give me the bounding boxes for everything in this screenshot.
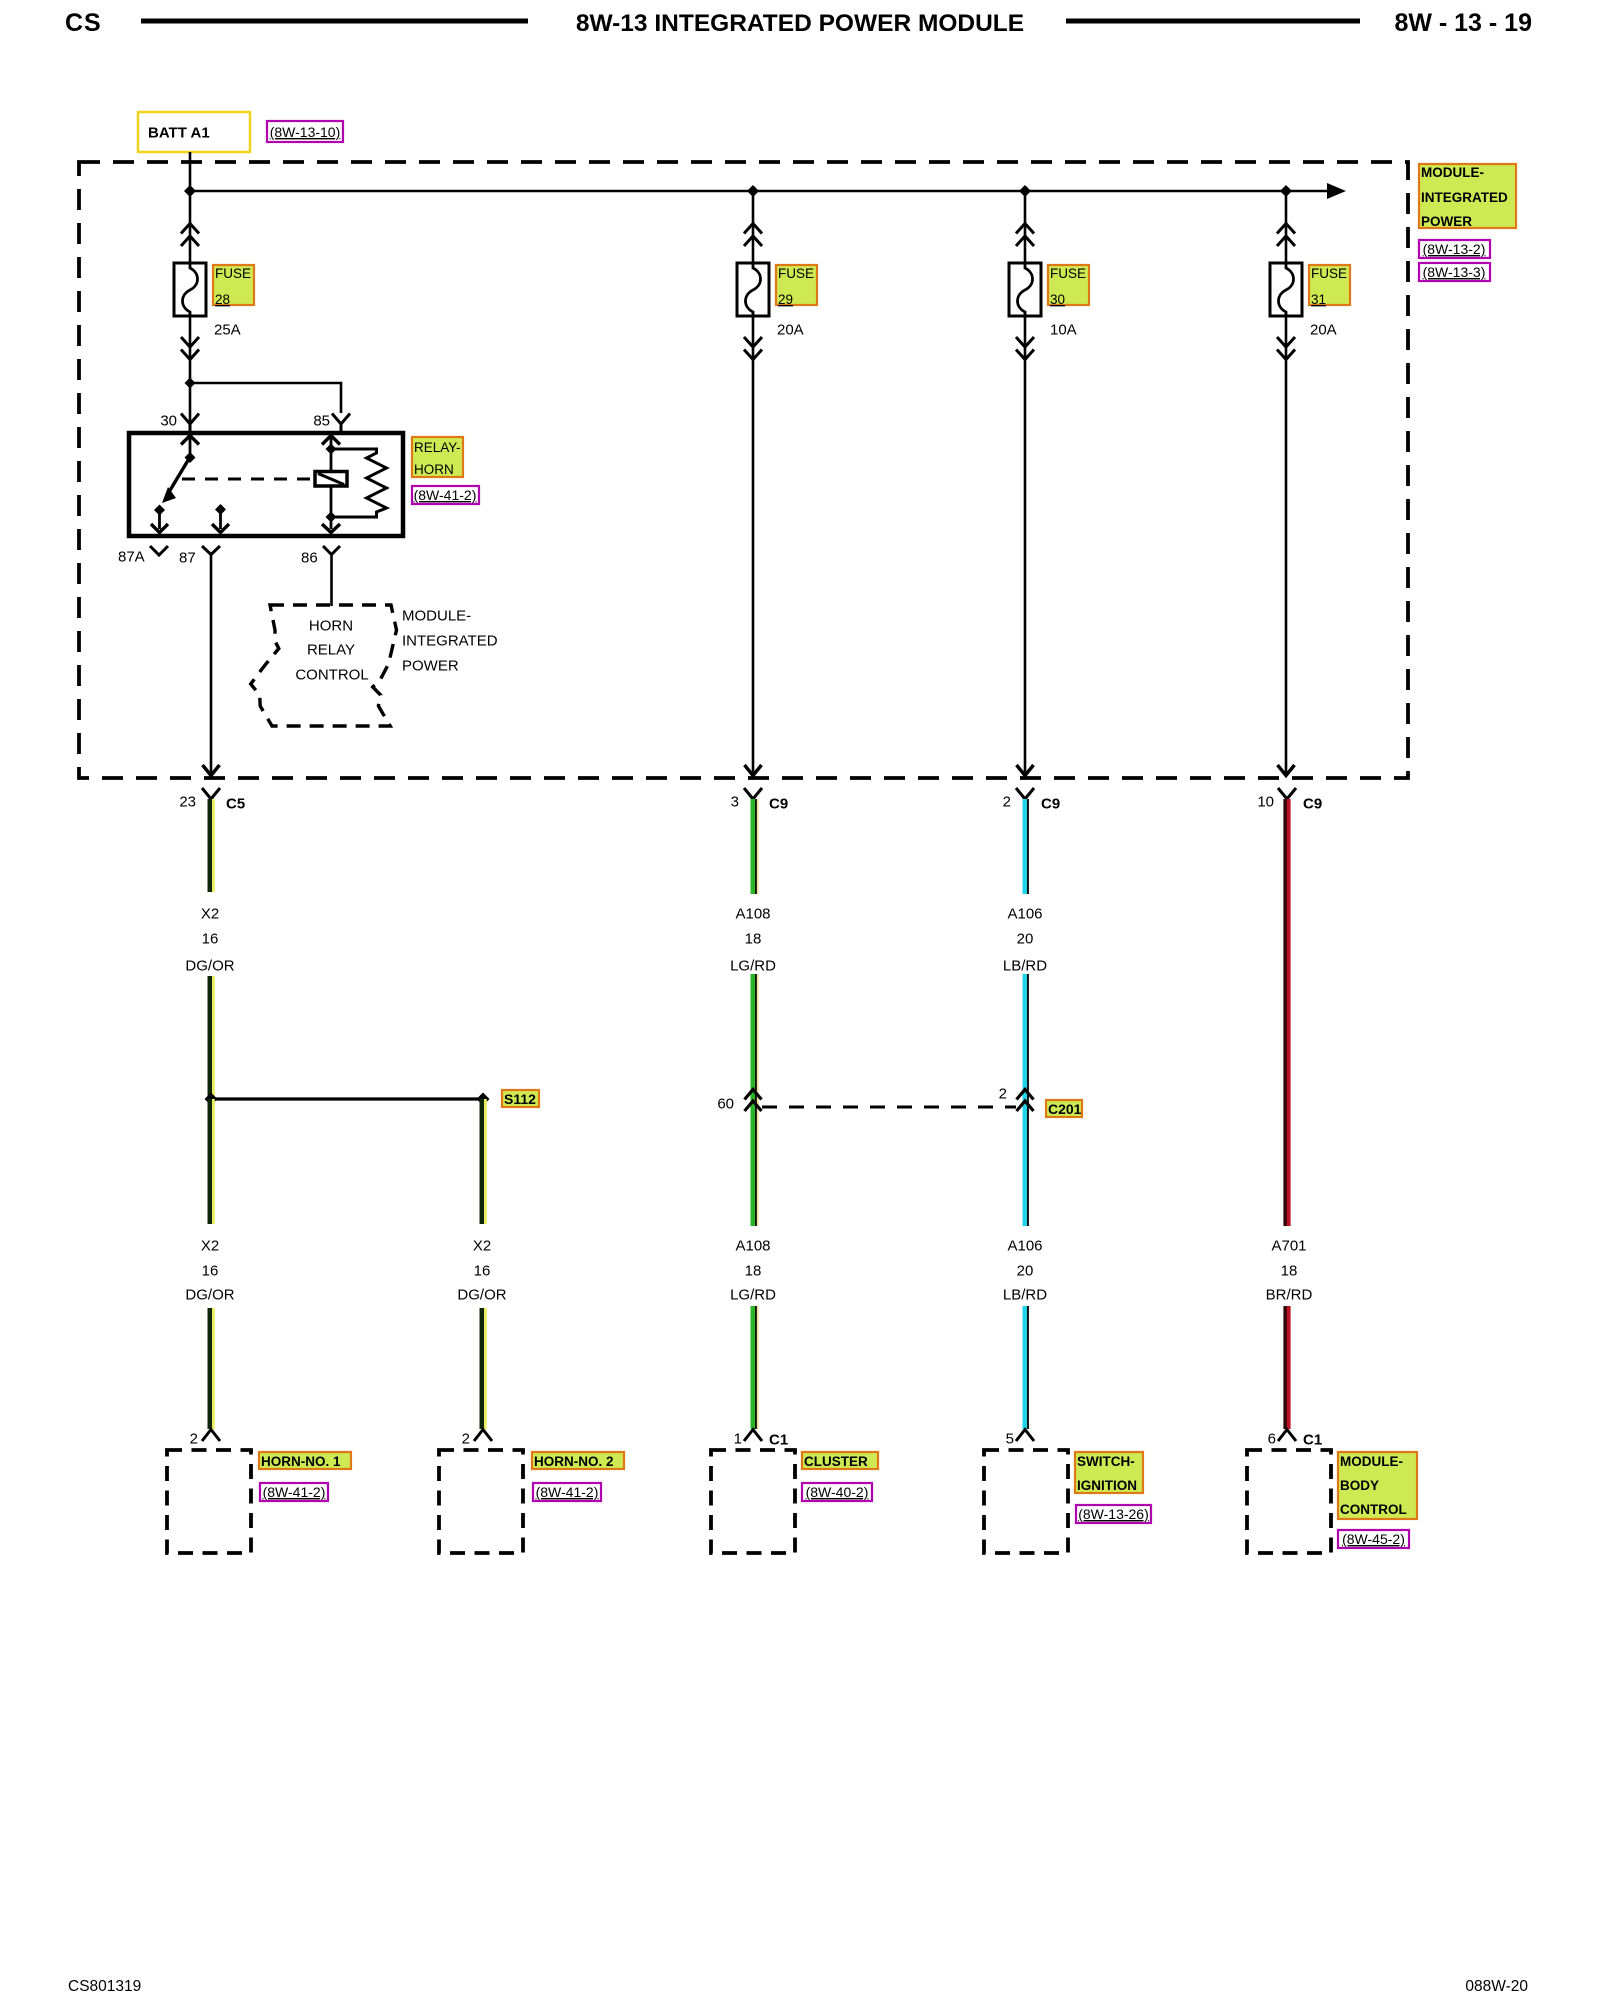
footer drawing number 088W-20 xyxy=(1465,1978,1528,1995)
wire A106 20 LB/RD to ignition switch xyxy=(1025,1306,1028,1429)
fuse F29 column wire (top) xyxy=(752,191,755,263)
svg-text:16: 16 xyxy=(202,931,219,948)
label HORN-NO. 2 xyxy=(532,1452,624,1469)
label CLUSTER xyxy=(802,1452,878,1469)
svg-text:X2: X2 xyxy=(201,906,219,923)
header rule right xyxy=(1066,19,1360,24)
node BATT A1 xyxy=(138,112,250,152)
svg-text:CS801319: CS801319 xyxy=(68,1978,141,1995)
svg-text:INTEGRATED: INTEGRATED xyxy=(402,633,498,650)
connector fork C9 pin 2 (below module) xyxy=(1016,788,1034,799)
svg-text:10A: 10A xyxy=(1050,322,1077,339)
C201 dashed tie line xyxy=(762,1106,1016,1109)
wire X2 16 DG/OR to horn no.1 xyxy=(210,1308,213,1429)
link (8W-13-2) xyxy=(1419,240,1490,258)
svg-text:A106: A106 xyxy=(1007,1238,1042,1255)
wire labels A108 18 LG/RD (lower) xyxy=(730,1238,776,1304)
svg-text:FUSE: FUSE xyxy=(1050,266,1086,281)
svg-text:C1: C1 xyxy=(1303,1432,1322,1449)
fuse F31 body xyxy=(1270,263,1302,316)
in-line connector C201 chevrons (left, pin 60) xyxy=(745,1090,762,1112)
svg-text:DG/OR: DG/OR xyxy=(185,958,234,975)
text HORN RELAY CONTROL xyxy=(295,618,368,684)
label HORN-NO. 1 xyxy=(259,1452,351,1469)
svg-text:60: 60 xyxy=(717,1096,734,1113)
svg-text:IGNITION: IGNITION xyxy=(1077,1478,1137,1493)
connector fork body control module pin 6 (to component) xyxy=(1278,1430,1296,1442)
wire pin 86 to horn relay control xyxy=(330,555,333,607)
pin 30 connector fork xyxy=(181,414,199,434)
pin 23 label xyxy=(179,794,196,811)
svg-text:16: 16 xyxy=(202,1263,219,1280)
wire to pin 30 xyxy=(189,383,192,424)
wire A701 18 BR/RD to body control module xyxy=(1285,1306,1288,1429)
splice S112 node left xyxy=(205,1093,218,1106)
component box SWITCH-IGNITION xyxy=(984,1450,1068,1553)
svg-text:BR/RD: BR/RD xyxy=(1266,1287,1313,1304)
svg-text:2: 2 xyxy=(190,1431,198,1448)
pin 30 label xyxy=(160,413,177,430)
connector chevrons below fuse F30 xyxy=(1016,337,1034,360)
link (8W-13-10) xyxy=(267,121,343,142)
wire labels A106 20 LB/RD (upper) xyxy=(1003,906,1047,975)
connector C5 label xyxy=(226,796,245,813)
svg-text:25A: 25A xyxy=(214,322,241,339)
pin 87A connector chevron xyxy=(150,546,168,555)
connector chevrons below fuse F29 xyxy=(744,337,762,360)
svg-text:C9: C9 xyxy=(1303,796,1322,813)
value 20A for fuse F31 xyxy=(1310,322,1337,339)
connector chevrons above fuse F28 xyxy=(181,224,199,247)
pin 5 label xyxy=(1006,1431,1014,1448)
svg-text:(8W-13-3): (8W-13-3) xyxy=(1423,264,1486,280)
svg-text:INTEGRATED: INTEGRATED xyxy=(1421,190,1508,205)
svg-text:(8W-41-2): (8W-41-2) xyxy=(263,1484,326,1500)
svg-text:(8W-13-2): (8W-13-2) xyxy=(1423,241,1486,257)
pin 85 label xyxy=(313,413,330,430)
svg-text:088W-20: 088W-20 xyxy=(1465,1978,1528,1995)
svg-text:LG/RD: LG/RD xyxy=(730,1287,776,1304)
connector chevrons above fuse F31 xyxy=(1277,224,1295,247)
relay coil (solenoid) xyxy=(315,472,347,487)
component box MODULE-BODY CONTROL xyxy=(1247,1450,1331,1553)
link (8W-13-3) xyxy=(1419,263,1490,281)
header rule left xyxy=(141,19,528,24)
fuse F29 output wire down to module edge xyxy=(745,316,762,776)
svg-text:2: 2 xyxy=(462,1431,470,1448)
link (8W-41-2) horn no.1 xyxy=(260,1483,328,1501)
svg-text:CONTROL: CONTROL xyxy=(295,667,368,684)
component box CLUSTER xyxy=(711,1450,795,1553)
component box HORN-NO. 2 xyxy=(439,1450,523,1553)
wire branch to pin 85 xyxy=(190,383,341,413)
link (8W-40-2) cluster xyxy=(802,1483,872,1501)
module-integrated power dashed box xyxy=(79,162,1408,778)
relay coil lead from pin 85 xyxy=(322,435,340,471)
svg-text:29: 29 xyxy=(778,292,793,307)
svg-text:30: 30 xyxy=(160,413,177,430)
wire labels A106 20 LB/RD (lower) xyxy=(1003,1238,1047,1304)
pin 1 label xyxy=(734,1431,742,1448)
svg-text:X2: X2 xyxy=(473,1238,491,1255)
connector chevrons above fuse F30 xyxy=(1016,224,1034,247)
connector C1 label (body control) xyxy=(1303,1432,1322,1449)
label RELAY-HORN xyxy=(412,437,463,477)
wire A108 18 LG/RD upper segment xyxy=(753,799,758,894)
svg-text:2: 2 xyxy=(1003,794,1011,811)
label S112 xyxy=(502,1090,539,1107)
wire X2 16 DG/OR below splice (left) xyxy=(210,1099,213,1224)
pin 86 connector fork xyxy=(323,546,340,555)
svg-text:BODY: BODY xyxy=(1340,1478,1379,1493)
pin 3 label xyxy=(731,794,739,811)
relay contact 87A lead xyxy=(151,505,168,533)
pin 2 label (horn no.2) xyxy=(462,1431,470,1448)
svg-text:(8W-40-2): (8W-40-2) xyxy=(806,1484,869,1500)
connector chevrons below fuse F31 xyxy=(1277,337,1295,360)
connector fork horn no.2 pin 2 (to component) xyxy=(474,1430,492,1442)
label C201 xyxy=(1046,1100,1082,1117)
svg-text:(8W-13-26): (8W-13-26) xyxy=(1078,1506,1149,1522)
component box HORN-NO. 1 xyxy=(167,1450,251,1553)
value 25A for fuse F28 xyxy=(214,322,241,339)
link (8W-41-2) horn no.2 xyxy=(533,1483,601,1501)
pin 2 label (C201) xyxy=(999,1086,1007,1103)
page header: CS xyxy=(65,9,102,37)
label MODULE-INTEGRATED POWER (top right) xyxy=(1419,164,1516,229)
label FUSE 31 xyxy=(1309,265,1350,307)
svg-text:RELAY: RELAY xyxy=(307,642,355,659)
svg-text:DG/OR: DG/OR xyxy=(457,1287,506,1304)
splice bridge wire xyxy=(211,1097,483,1100)
wire X2 16 DG/OR to splice S112 xyxy=(210,976,213,1099)
svg-text:(8W-45-2): (8W-45-2) xyxy=(1342,1531,1405,1547)
page number 8W - 13 - 19 xyxy=(1394,9,1532,37)
fuse F31 column wire (top) xyxy=(1285,191,1288,263)
svg-text:(8W-41-2): (8W-41-2) xyxy=(536,1484,599,1500)
svg-text:CONTROL: CONTROL xyxy=(1340,1502,1407,1517)
svg-text:C201: C201 xyxy=(1048,1101,1082,1117)
svg-text:RELAY-: RELAY- xyxy=(414,440,461,455)
wire labels X2 16 DG/OR (upper) xyxy=(185,906,234,975)
fuse F30 body xyxy=(1009,263,1041,316)
svg-text:FUSE: FUSE xyxy=(1311,266,1347,281)
svg-text:(8W-13-10): (8W-13-10) xyxy=(270,124,341,140)
value 10A for fuse F30 xyxy=(1050,322,1077,339)
svg-text:S112: S112 xyxy=(504,1091,536,1107)
wire A106 20 LB/RD upper segment xyxy=(1025,799,1028,894)
svg-text:6: 6 xyxy=(1268,1431,1276,1448)
svg-text:A108: A108 xyxy=(735,1238,770,1255)
connector C9 label (fuse 30) xyxy=(1041,796,1060,813)
page title xyxy=(576,10,1024,37)
pin 85 connector fork xyxy=(332,414,350,434)
svg-text:31: 31 xyxy=(1311,292,1326,307)
svg-text:A106: A106 xyxy=(1007,906,1042,923)
pin 2 label (fuse 30) xyxy=(1003,794,1011,811)
junction node at fuse 28 xyxy=(184,185,196,197)
svg-text:LB/RD: LB/RD xyxy=(1003,1287,1047,1304)
label FUSE 30 xyxy=(1048,265,1089,307)
fuse F28 output wire to relay feed junction xyxy=(189,316,192,383)
connector fork ignition switch pin 5 (to component) xyxy=(1016,1430,1034,1442)
label FUSE 29 xyxy=(776,265,817,307)
pin 87 connector fork xyxy=(202,546,220,555)
wire X2 16 DG/OR below splice (right) xyxy=(482,1099,485,1224)
wire labels X2 16 DG/OR (left lower) xyxy=(185,1238,234,1304)
svg-text:A108: A108 xyxy=(735,906,770,923)
svg-text:LG/RD: LG/RD xyxy=(730,958,776,975)
svg-text:C9: C9 xyxy=(769,796,788,813)
link (8W-45-2) body control module xyxy=(1338,1530,1409,1548)
wire A701 18 BR/RD long segment xyxy=(1285,799,1288,1226)
connector chevrons above fuse F29 xyxy=(744,224,762,247)
link (8W-41-2) relay xyxy=(412,486,479,504)
svg-text:HORN-NO. 1: HORN-NO. 1 xyxy=(261,1454,341,1469)
relay K1 (horn relay) body xyxy=(129,433,403,536)
svg-text:5: 5 xyxy=(1006,1431,1014,1448)
svg-text:18: 18 xyxy=(745,931,762,948)
svg-text:C1: C1 xyxy=(769,1432,788,1449)
svg-text:16: 16 xyxy=(474,1263,491,1280)
footer sheet code CS801319 xyxy=(68,1978,141,1995)
svg-text:20: 20 xyxy=(1017,931,1034,948)
fuse F30 output wire down to module edge xyxy=(1017,316,1034,776)
svg-text:23: 23 xyxy=(179,794,196,811)
bus wire (battery feed) with arrow xyxy=(190,183,1346,199)
svg-text:C5: C5 xyxy=(226,796,245,813)
svg-text:85: 85 xyxy=(313,413,330,430)
label FUSE 28 xyxy=(213,265,254,307)
svg-text:FUSE: FUSE xyxy=(215,266,251,281)
svg-text:HORN-NO. 2: HORN-NO. 2 xyxy=(534,1454,614,1469)
svg-text:30: 30 xyxy=(1050,292,1065,307)
connector fork horn no.1 pin 2 (to component) xyxy=(202,1430,220,1442)
wire X2 16 DG/OR to horn no.2 xyxy=(482,1308,485,1429)
svg-text:2: 2 xyxy=(999,1086,1007,1103)
relay coil lead to pin 86 xyxy=(322,486,340,533)
svg-text:20: 20 xyxy=(1017,1263,1034,1280)
svg-text:LB/RD: LB/RD xyxy=(1003,958,1047,975)
wire labels A108 18 LG/RD (upper) xyxy=(730,906,776,975)
svg-text:10: 10 xyxy=(1257,794,1274,811)
text MODULE-INTEGRATED POWER (beside horn relay control) xyxy=(402,608,498,675)
pin 87A label xyxy=(118,549,145,566)
svg-text:HORN: HORN xyxy=(309,618,353,635)
svg-text:28: 28 xyxy=(215,292,230,307)
pin 6 label xyxy=(1268,1431,1276,1448)
svg-text:8W - 13 - 19: 8W - 13 - 19 xyxy=(1394,9,1532,37)
pin 86 label xyxy=(301,550,318,567)
svg-text:FUSE: FUSE xyxy=(778,266,814,281)
connector fork C9 pin 10 (below module) xyxy=(1278,788,1296,799)
svg-text:MODULE-: MODULE- xyxy=(1421,165,1484,180)
svg-text:3: 3 xyxy=(731,794,739,811)
connector fork C5 pin 23 (below module) xyxy=(202,788,220,799)
svg-text:POWER: POWER xyxy=(1421,214,1472,229)
relay mechanical link (dashed) xyxy=(182,478,315,481)
fuse F29 body xyxy=(737,263,769,316)
connector C9 label (fuse 31) xyxy=(1303,796,1322,813)
relay coil resistor branch xyxy=(331,449,387,517)
svg-text:18: 18 xyxy=(745,1263,762,1280)
svg-text:MODULE-: MODULE- xyxy=(402,608,471,625)
fuse F31 output wire down to module edge xyxy=(1278,316,1295,776)
svg-text:MODULE-: MODULE- xyxy=(1340,1454,1403,1469)
connector C1 label (cluster) xyxy=(769,1432,788,1449)
relay pin 30 internal lead xyxy=(181,435,199,463)
fuse F28 column wire (top) xyxy=(189,191,192,263)
svg-text:HORN: HORN xyxy=(414,462,454,477)
svg-text:POWER: POWER xyxy=(402,658,459,675)
label MODULE-BODY CONTROL xyxy=(1338,1452,1417,1519)
svg-text:(8W-41-2): (8W-41-2) xyxy=(414,487,477,503)
label SWITCH-IGNITION xyxy=(1075,1452,1143,1493)
value 20A for fuse F29 xyxy=(777,322,804,339)
svg-text:86: 86 xyxy=(301,550,318,567)
svg-text:20A: 20A xyxy=(1310,322,1337,339)
link (8W-13-26) ignition switch xyxy=(1076,1505,1151,1523)
wire pin 87 down to module edge xyxy=(203,555,220,776)
pin 60 label xyxy=(717,1096,734,1113)
svg-text:X2: X2 xyxy=(201,1238,219,1255)
junction node at fuse 31 xyxy=(1280,185,1292,197)
wire from BATT A1 down to bus xyxy=(189,152,192,191)
pin 10 label xyxy=(1257,794,1274,811)
fuse F30 column wire (top) xyxy=(1024,191,1027,263)
wire A106 20 LB/RD through C201 xyxy=(1025,974,1028,1226)
svg-text:87A: 87A xyxy=(118,549,145,566)
svg-text:18: 18 xyxy=(1281,1263,1298,1280)
svg-text:20A: 20A xyxy=(777,322,804,339)
svg-text:1: 1 xyxy=(734,1431,742,1448)
svg-text:CLUSTER: CLUSTER xyxy=(804,1454,868,1469)
relay contact 87 lead xyxy=(212,504,229,533)
svg-text:A701: A701 xyxy=(1271,1238,1306,1255)
svg-text:C9: C9 xyxy=(1041,796,1060,813)
svg-text:BATT A1: BATT A1 xyxy=(148,125,210,142)
svg-text:SWITCH-: SWITCH- xyxy=(1077,1454,1135,1469)
wire A108 18 LG/RD to cluster xyxy=(753,1306,758,1429)
in-line connector C201 chevrons (right, pin 2) xyxy=(1017,1090,1034,1112)
connector C9 label (fuse 29) xyxy=(769,796,788,813)
junction node at fuse 30 xyxy=(1019,185,1031,197)
connector fork C9 pin 3 (below module) xyxy=(744,788,762,799)
svg-text:8W-13 INTEGRATED POWER MODULE: 8W-13 INTEGRATED POWER MODULE xyxy=(576,10,1024,37)
junction node at fuse 29 xyxy=(747,185,759,197)
svg-text:CS: CS xyxy=(65,9,102,37)
fuse F28 body xyxy=(174,263,206,316)
wire X2 16 DG/OR upper segment xyxy=(210,799,213,892)
horn relay control module outline (dashed) xyxy=(251,605,397,726)
wire labels A701 18 BR/RD xyxy=(1266,1238,1313,1304)
splice S112 node right xyxy=(477,1093,490,1106)
connector fork cluster pin 1 (to component) xyxy=(744,1430,762,1442)
pin 87 label xyxy=(179,550,196,567)
svg-text:87: 87 xyxy=(179,550,196,567)
relay feed junction node xyxy=(185,378,196,389)
pin 2 label (horn no.1) xyxy=(190,1431,198,1448)
svg-text:DG/OR: DG/OR xyxy=(185,1287,234,1304)
wire labels X2 16 DG/OR (right lower) xyxy=(457,1238,506,1304)
wire A108 18 LG/RD through C201 xyxy=(753,974,758,1226)
connector chevrons below fuse F28 xyxy=(181,337,199,360)
relay switch arm (30 to 87) xyxy=(162,457,190,503)
